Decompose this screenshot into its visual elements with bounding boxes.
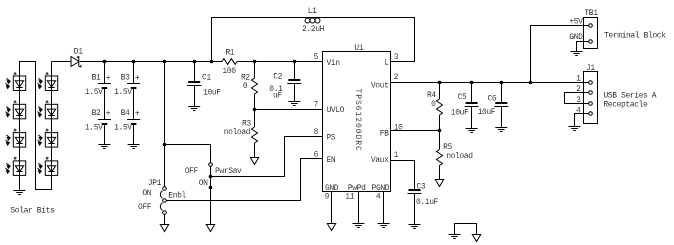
svg-text:USB Series A: USB Series A — [603, 92, 656, 101]
svg-text:1: 1 — [576, 74, 581, 83]
svg-text:ON: ON — [199, 179, 208, 188]
svg-text:+5V: +5V — [569, 18, 583, 27]
svg-text:1: 1 — [394, 151, 399, 160]
svg-text:10uF: 10uF — [203, 89, 221, 98]
svg-text:EN: EN — [327, 156, 336, 165]
svg-text:0.1uF: 0.1uF — [416, 198, 439, 207]
svg-text:3: 3 — [394, 53, 399, 62]
svg-text:L: L — [384, 58, 389, 67]
svg-text:1.5V: 1.5V — [85, 88, 103, 97]
svg-text:C5: C5 — [458, 93, 467, 102]
svg-text:uF: uF — [273, 91, 282, 100]
svg-text:Vin: Vin — [327, 59, 341, 68]
svg-text:U1: U1 — [354, 44, 363, 53]
svg-text:TPS61200DRC: TPS61200DRC — [353, 89, 362, 152]
svg-text:B3: B3 — [121, 74, 130, 83]
svg-text:1.5V: 1.5V — [85, 124, 103, 133]
svg-text:Vaux: Vaux — [371, 156, 389, 165]
svg-text:Vout: Vout — [371, 82, 389, 91]
svg-text:D1: D1 — [74, 47, 83, 56]
svg-text:noload: noload — [446, 152, 473, 161]
svg-text:R1: R1 — [225, 48, 234, 57]
svg-text:PGND: PGND — [372, 184, 390, 193]
svg-text:J1: J1 — [586, 64, 595, 73]
svg-text:4: 4 — [376, 192, 381, 201]
svg-text:10uF: 10uF — [478, 108, 496, 117]
svg-text:0: 0 — [431, 100, 436, 109]
svg-text:2: 2 — [394, 73, 399, 82]
svg-text:UVLO: UVLO — [327, 106, 345, 115]
svg-text:PwrSav: PwrSav — [215, 167, 242, 176]
svg-text:2: 2 — [576, 85, 581, 94]
svg-text:9: 9 — [325, 192, 330, 201]
svg-text:10uF: 10uF — [451, 109, 469, 118]
svg-text:L1: L1 — [308, 7, 317, 16]
svg-text:4: 4 — [576, 106, 581, 115]
svg-text:Enbl: Enbl — [168, 192, 186, 201]
svg-text:OFF: OFF — [138, 203, 152, 212]
svg-text:2.2uH: 2.2uH — [302, 25, 325, 34]
svg-text:1.5V: 1.5V — [114, 124, 132, 133]
svg-text:R5: R5 — [443, 143, 452, 152]
svg-text:C1: C1 — [202, 73, 211, 82]
svg-text:10: 10 — [394, 124, 403, 133]
svg-text:OFF: OFF — [185, 167, 199, 176]
svg-text:B4: B4 — [121, 109, 130, 118]
svg-text:noload: noload — [224, 128, 251, 137]
svg-text:FB: FB — [380, 130, 389, 139]
svg-text:6: 6 — [314, 150, 319, 159]
svg-text:B2: B2 — [92, 109, 101, 118]
svg-text:3: 3 — [576, 96, 581, 105]
svg-text:C6: C6 — [487, 95, 496, 104]
svg-text:JP1: JP1 — [148, 179, 162, 188]
svg-text:TB1: TB1 — [584, 9, 598, 18]
svg-text:ON: ON — [142, 189, 151, 198]
svg-text:GND: GND — [569, 33, 583, 42]
svg-text:B1: B1 — [92, 74, 101, 83]
svg-text:Solar Bits: Solar Bits — [10, 206, 55, 215]
svg-text:PS: PS — [327, 133, 336, 142]
svg-text:0: 0 — [243, 82, 248, 91]
svg-text:+: + — [135, 109, 140, 118]
svg-text:7: 7 — [314, 101, 319, 110]
svg-text:+: + — [106, 109, 111, 118]
svg-text:C3: C3 — [417, 183, 426, 192]
svg-text:5: 5 — [314, 53, 319, 62]
svg-text:11: 11 — [345, 192, 354, 201]
svg-text:Terminal Block: Terminal Block — [604, 32, 666, 41]
svg-text:C2: C2 — [273, 72, 282, 81]
svg-text:1.5V: 1.5V — [114, 88, 132, 97]
svg-text:Receptacle: Receptacle — [603, 101, 648, 110]
svg-text:100: 100 — [222, 67, 236, 76]
svg-text:8: 8 — [314, 128, 319, 137]
svg-text:+: + — [135, 74, 140, 83]
svg-text:+: + — [106, 74, 111, 83]
